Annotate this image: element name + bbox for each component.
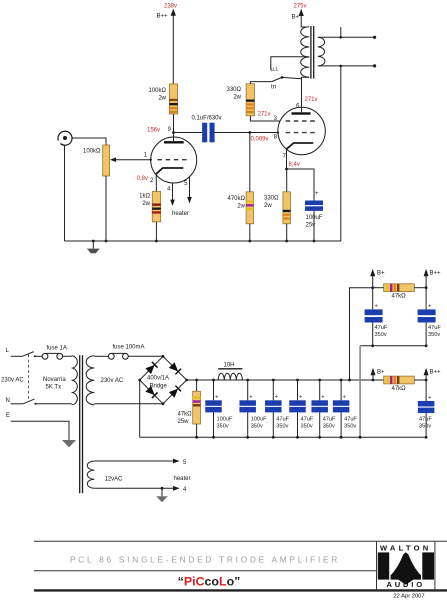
svg-text:350v: 350v [301, 424, 313, 430]
svg-text:330Ω: 330Ω [264, 196, 279, 202]
svg-text:350v: 350v [428, 332, 440, 338]
wire heater pin5 [94, 459, 187, 466]
svg-text:B++: B++ [157, 14, 169, 20]
resistor 100k anode (triode) [149, 84, 178, 114]
svg-text:25w: 25w [178, 419, 190, 425]
label 12vAC [105, 477, 124, 483]
node pin8 dot [277, 131, 279, 133]
resistor 470k grid2 [228, 192, 254, 224]
transformer T2 mains primary [72, 356, 78, 405]
terminal N [6, 398, 72, 405]
title block top rule [34, 540, 447, 542]
logo box borders [377, 541, 435, 590]
logo mark [378, 552, 434, 585]
svg-text:heater: heater [172, 211, 189, 217]
svg-text:350v: 350v [419, 424, 431, 430]
resistor 47k upper decoupling [373, 284, 426, 300]
svg-text:350v: 350v [217, 424, 229, 430]
fuse 1A [42, 346, 72, 360]
svg-text:100uF: 100uF [251, 417, 267, 423]
transformer T2 heater secondary [87, 461, 94, 488]
svg-text:100kΩ: 100kΩ [83, 149, 101, 155]
svg-text:350v: 350v [375, 332, 387, 338]
svg-text:47uF: 47uF [323, 417, 336, 423]
svg-text:+: + [315, 191, 319, 197]
svg-text:350v: 350v [251, 424, 263, 430]
capacitor C4 100uF 350v filter [239, 379, 267, 439]
capacitor 47uF 350v lower B++ [418, 380, 435, 439]
svg-text:47uF: 47uF [344, 417, 357, 423]
wire g2 pin3 to 330R screen resistor [250, 116, 280, 121]
title block middle rule [34, 570, 377, 572]
capacitor C5 47uF 350v filter [265, 379, 290, 439]
svg-text:47kΩ: 47kΩ [178, 412, 193, 418]
transformer T2 HV secondary [86, 356, 94, 405]
svg-text:2w: 2w [142, 201, 150, 207]
svg-text:B++: B++ [430, 271, 442, 277]
svg-text:u.l.: u.l. [271, 67, 279, 73]
wire pin9 to coupling cap [174, 132, 203, 134]
svg-text:230v AC: 230v AC [1, 378, 24, 384]
svg-text:47kΩ: 47kΩ [392, 386, 407, 392]
svg-text:0,009v: 0,009v [251, 137, 269, 143]
svg-text:271v: 271v [258, 112, 271, 118]
title text PCL 86 [70, 555, 340, 565]
svg-text:heater: heater [174, 476, 191, 482]
wire HV secondary bottom to bridge [94, 403, 163, 405]
svg-text:2w: 2w [158, 96, 166, 102]
svg-text:156v: 156v [147, 128, 160, 134]
title text PiCcoLo [178, 575, 241, 589]
label heater (psu) [174, 476, 191, 482]
wire anode pin6 to output transformer [302, 77, 310, 112]
transformer T2 core [80, 355, 83, 493]
wire cathode pin2 lead [137, 174, 157, 192]
svg-text:B+: B+ [377, 370, 385, 376]
transformer T1 core [311, 26, 314, 79]
op-amp / tube U1a triode PCL86 [151, 133, 197, 184]
wire feed to upper filter block [348, 286, 374, 381]
node B+ arrow upper block [370, 269, 385, 288]
diode D3 bottom-left [145, 386, 157, 398]
resistor 47k lower decoupling [384, 376, 426, 392]
wire junction down to 470k [250, 133, 269, 192]
node B+ supply arrow (275v) [291, 4, 306, 28]
wire jack shield down [64, 145, 66, 241]
svg-text:400v/1A: 400v/1A [147, 376, 169, 382]
svg-text:Bridge: Bridge [150, 384, 168, 390]
ground symbol heater [156, 488, 168, 502]
node B+ arrow lower block [371, 368, 386, 382]
svg-text:+: + [428, 395, 431, 401]
svg-text:10H: 10H [224, 363, 235, 369]
svg-text:+: + [275, 395, 278, 401]
wire u.l. tap [271, 57, 309, 70]
capacitor 47uF 350v upper B+ [365, 288, 388, 347]
capacitor 0,1uF/630v coupling [192, 116, 222, 143]
wire ground rail (top schematic) [65, 240, 341, 242]
label 230v AC mains [1, 378, 24, 384]
svg-text:47uF: 47uF [375, 325, 388, 331]
logo AUDIO text [386, 580, 424, 589]
node pin9 junction [147, 127, 175, 134]
svg-text:Novarria: Novarria [43, 377, 66, 383]
svg-text:+: + [321, 395, 324, 401]
svg-text:47uF: 47uF [276, 417, 289, 423]
ground symbol earth [62, 440, 76, 447]
fuse 100mA [94, 345, 163, 360]
svg-text:fuse 1A: fuse 1A [47, 346, 67, 352]
wire cathode branch to cap [287, 169, 315, 201]
logo WALTON text [380, 544, 431, 553]
tube U1b pentode PCL86 [274, 97, 326, 160]
transformer T1 output primary [301, 27, 310, 77]
wire heater pin4 [94, 486, 187, 493]
svg-text:B+: B+ [377, 271, 385, 277]
svg-text:+: + [343, 395, 346, 401]
wire cathode to 330R [286, 169, 288, 192]
wire anode resistor to pin9 node [173, 114, 175, 133]
label 230v AC secondary [101, 378, 124, 384]
switch gang dashed link [28, 355, 30, 402]
capacitor 100uF 25v cathode bypass [305, 191, 323, 229]
svg-text:B+: B+ [291, 15, 299, 21]
pin 5 heater lead arrow [184, 177, 192, 204]
svg-text:E: E [6, 413, 10, 419]
svg-text:271v: 271v [305, 97, 318, 103]
svg-text:B++: B++ [430, 370, 442, 376]
resistor 1k cathode [139, 192, 161, 222]
wire grid resistor to rail [105, 176, 108, 242]
date 22 Apr 2007 [393, 593, 424, 599]
wire B+ main rail [187, 379, 384, 381]
wire upper block ground bus [359, 346, 426, 439]
terminal L [6, 348, 43, 357]
svg-text:47uF: 47uF [428, 325, 441, 331]
terminal E [6, 413, 69, 440]
svg-text:5K Tx: 5K Tx [46, 385, 62, 391]
svg-text:tri: tri [271, 85, 276, 91]
svg-text:350v: 350v [344, 424, 356, 430]
svg-text:47kΩ: 47kΩ [392, 294, 407, 300]
svg-text:350v: 350v [276, 424, 288, 430]
resistor 330R cathode [264, 192, 291, 224]
svg-text:+: + [249, 395, 252, 401]
svg-text:47uF: 47uF [419, 417, 432, 423]
wire secondary bottom lead [318, 64, 376, 67]
wire pin7 cathode down [285, 149, 300, 170]
svg-text:AUDIO: AUDIO [386, 580, 424, 589]
svg-text:22 Apr 2007: 22 Apr 2007 [393, 593, 424, 599]
capacitor C6 47uF 350v filter [289, 379, 314, 439]
svg-text:2w: 2w [264, 203, 272, 209]
capacitor C7 47uF 350v filter [311, 379, 336, 439]
resistor 330R screen [227, 84, 271, 118]
pin 4 heater lead arrow [167, 183, 175, 206]
input RCA jack [58, 131, 72, 145]
svg-text:0,8v: 0,8v [137, 176, 148, 182]
bridge rectifier 400v/1A [138, 355, 188, 405]
svg-text:230v AC: 230v AC [101, 378, 124, 384]
wire 470k to rail [155, 224, 251, 243]
wire secondary return to ground rail [340, 66, 342, 241]
resistor 100k grid [83, 145, 110, 176]
capacitor C3 100uF 350v filter [205, 379, 233, 439]
svg-text:+: + [375, 304, 378, 310]
node junction 470k top [248, 131, 251, 134]
switch u.l./tri [250, 67, 301, 91]
wire 1k to ground rail [155, 222, 157, 241]
svg-text:2w: 2w [237, 204, 245, 210]
diode D1 top-left [145, 362, 157, 374]
svg-text:100kΩ: 100kΩ [149, 88, 167, 94]
svg-text:350v: 350v [323, 424, 335, 430]
wire secondary top lead [318, 27, 376, 39]
wire jack to grid resistor [72, 138, 106, 145]
capacitor C8 47uF 350v filter [333, 379, 358, 439]
wire bypass cap to rail [313, 211, 316, 243]
title block bottom rule [34, 589, 447, 591]
svg-text:47uF: 47uF [301, 417, 314, 423]
svg-text:238v: 238v [164, 4, 177, 10]
svg-text:“PiCcoLo”: “PiCcoLo” [178, 575, 241, 589]
diode D4 bottom-right [169, 386, 181, 398]
ground symbol (top rail) [87, 240, 100, 254]
wire grid pin1 lead with arrowhead [110, 153, 152, 163]
svg-text:330Ω: 330Ω [227, 87, 242, 93]
node B++ arrow lower block [424, 368, 441, 382]
svg-text:2w: 2w [233, 95, 241, 101]
svg-text:PCL 86 SINGLE-ENDED TRIODE AMP: PCL 86 SINGLE-ENDED TRIODE AMPLIFIER [70, 555, 340, 565]
svg-text:8,4v: 8,4v [289, 162, 300, 168]
svg-text:N: N [6, 398, 10, 404]
node B++ arrow upper block [424, 269, 441, 289]
node B++ supply arrow (238v) [157, 4, 178, 84]
label heater [172, 211, 189, 217]
inductor choke 10H [218, 363, 242, 381]
svg-text:0,1uF/630v: 0,1uF/630v [192, 116, 222, 122]
label Novarria 5K Tx [43, 377, 66, 391]
wire bridge minus drop [139, 380, 141, 437]
wire PSU ground rail [140, 436, 426, 438]
svg-text:+: + [428, 304, 431, 310]
svg-text:1kΩ: 1kΩ [139, 194, 150, 200]
resistor 47k 25w bleeder [178, 379, 201, 439]
svg-text:+: + [299, 395, 302, 401]
diode D2 top-right [169, 362, 181, 374]
svg-text:WALTON: WALTON [380, 544, 431, 553]
svg-text:100uF: 100uF [217, 417, 233, 423]
svg-text:470kΩ: 470kΩ [228, 196, 246, 202]
svg-text:12vAC: 12vAC [105, 477, 124, 483]
wire coupling cap to pin8 [215, 132, 278, 134]
svg-text:+: + [215, 395, 218, 401]
wire 330R cathode to rail [285, 224, 288, 243]
capacitor 47uF 350v upper B++ [418, 288, 442, 347]
svg-text:fuse 100mA: fuse 100mA [113, 345, 145, 351]
transformer T1 secondary [318, 37, 325, 66]
svg-text:275v: 275v [294, 4, 307, 10]
